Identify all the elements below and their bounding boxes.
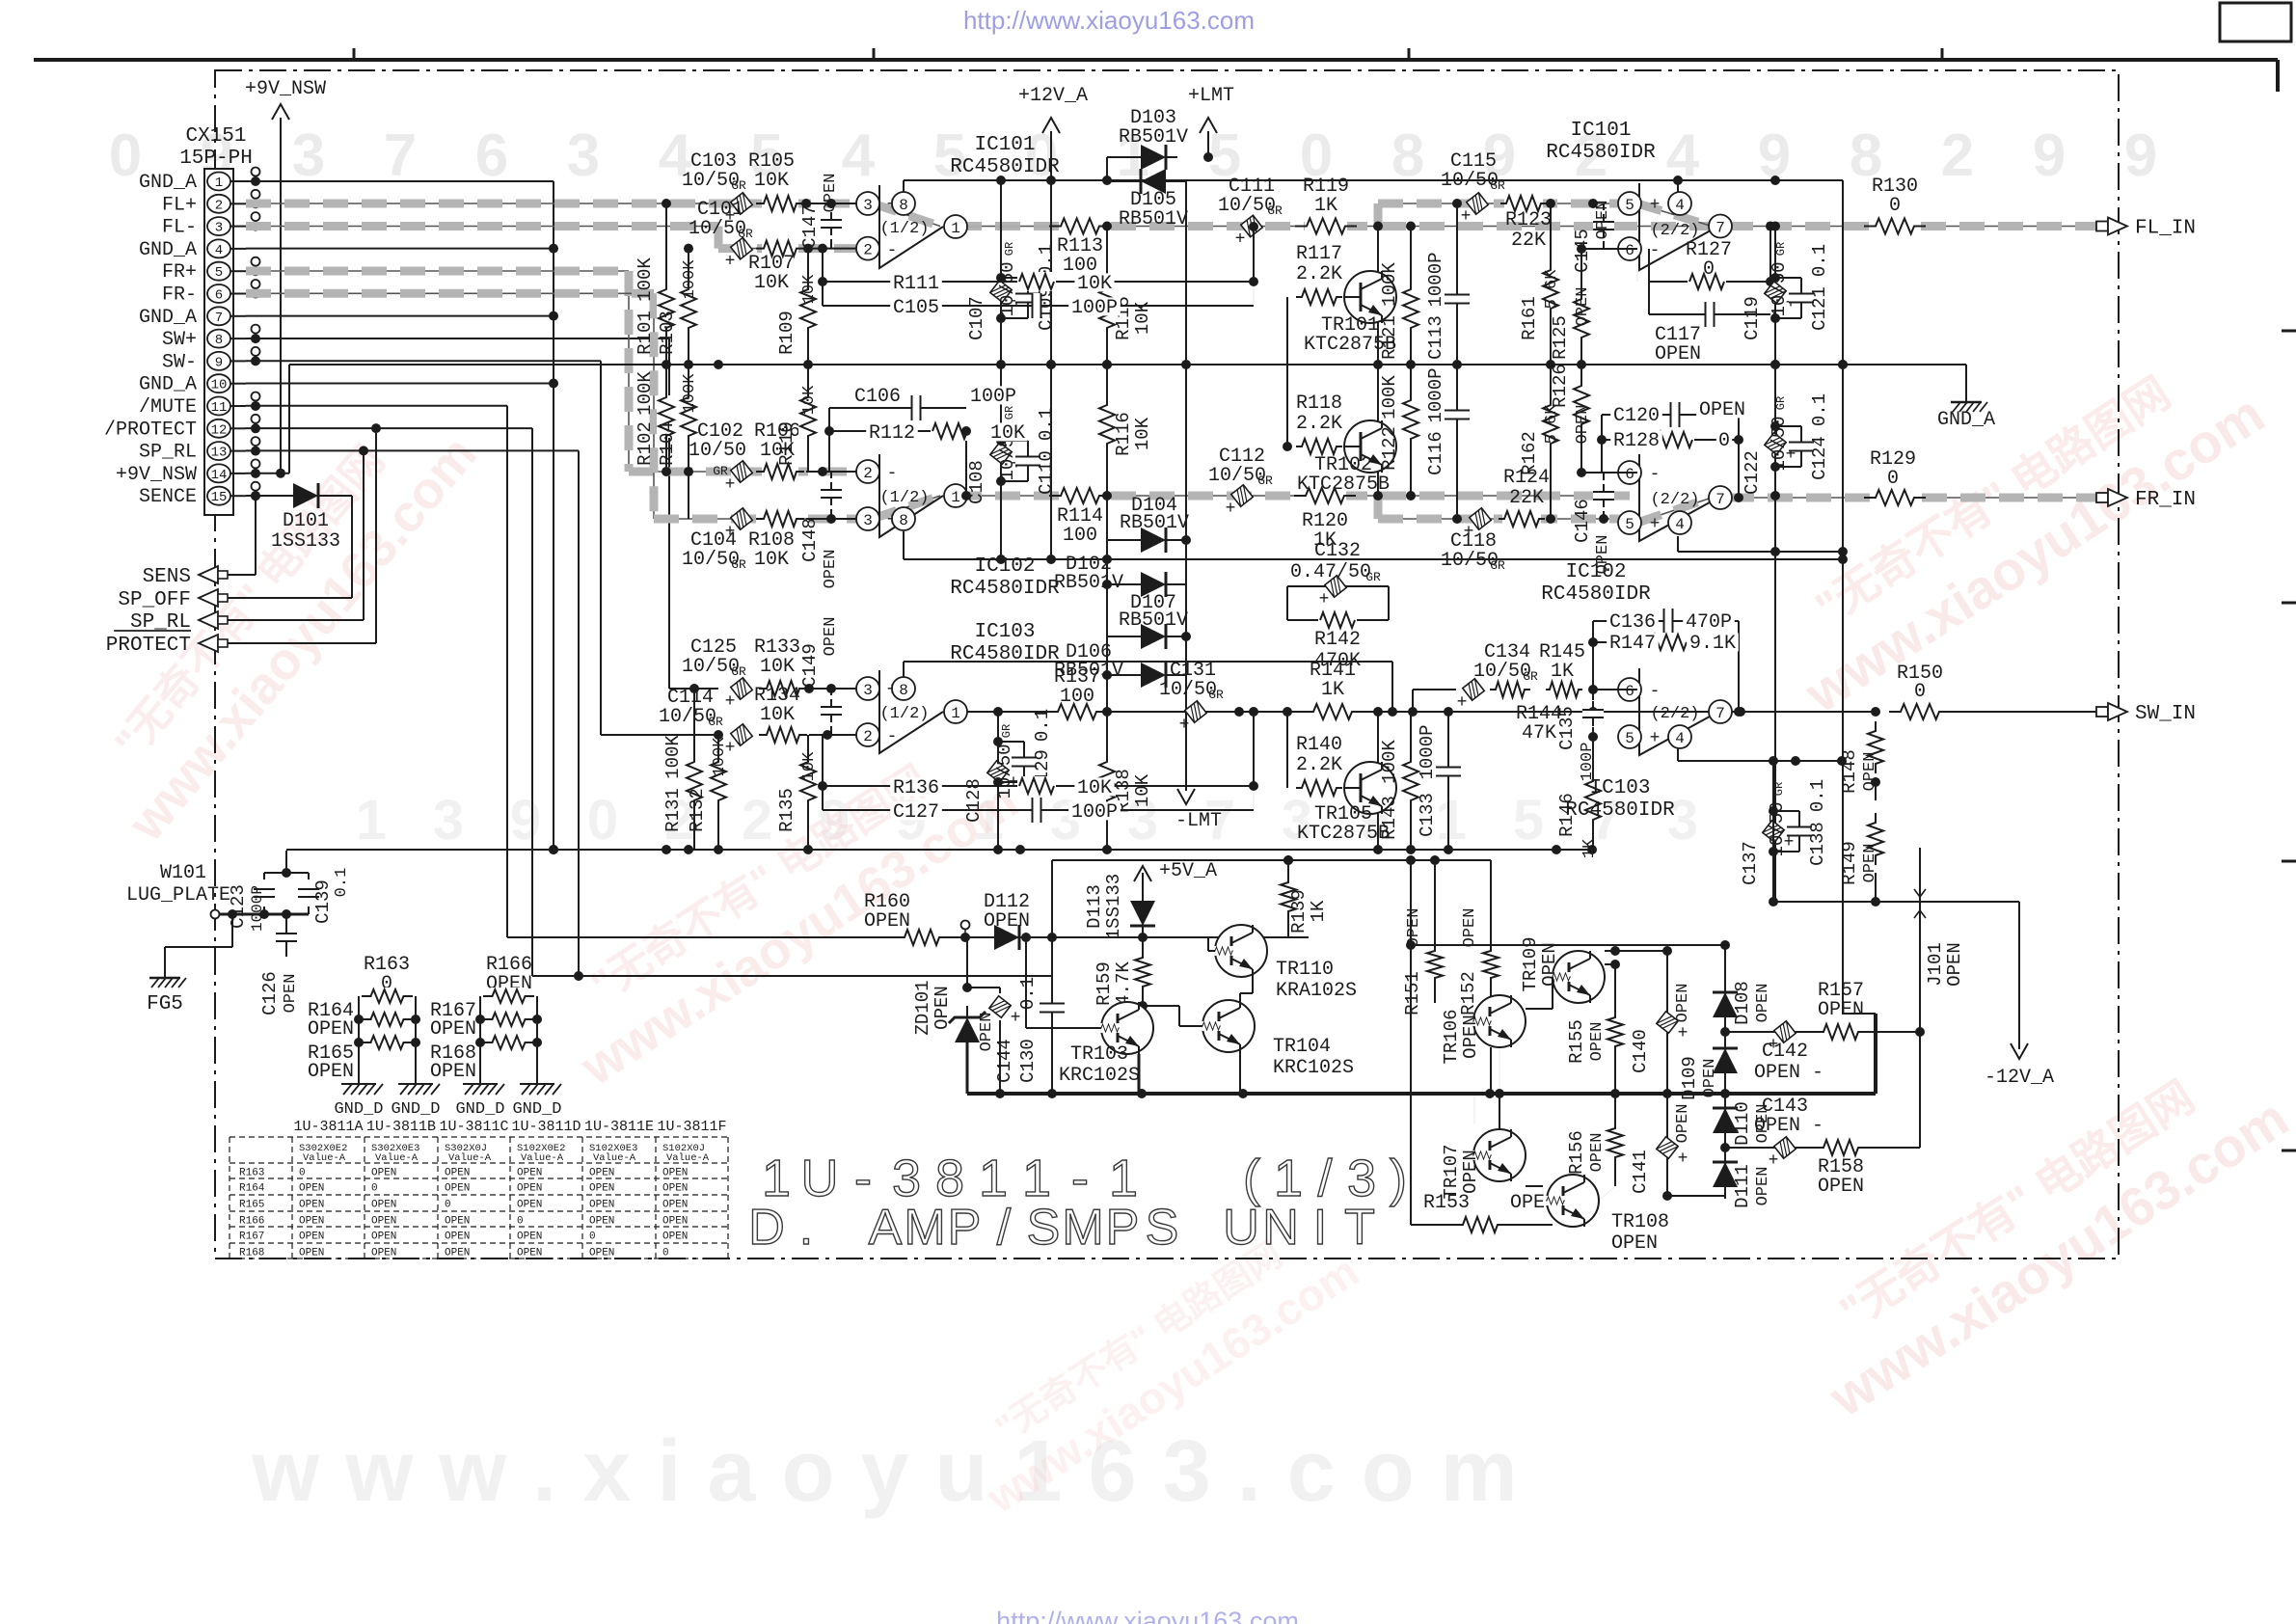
page top ruler line	[34, 48, 2278, 92]
svg-text:OPEN: OPEN	[430, 1061, 476, 1083]
capacitor C133	[1417, 707, 1461, 850]
svg-text:SENS: SENS	[143, 566, 191, 588]
svg-text:OPEN: OPEN	[662, 1200, 688, 1211]
svg-text:GND_D: GND_D	[455, 1100, 504, 1119]
node -LMT	[1175, 789, 1222, 832]
capacitor C145	[1572, 201, 1614, 273]
wire pin2b seg	[806, 467, 866, 476]
svg-text:C110: C110	[1036, 450, 1057, 495]
wire SW- route	[246, 361, 718, 735]
wire smps inner verticals	[1411, 1003, 1504, 1129]
resistor R153	[1423, 1192, 1556, 1234]
svg-text:OPEN: OPEN	[822, 174, 840, 213]
svg-text:GND_A: GND_A	[1937, 409, 1995, 431]
connector pin 2 FL+	[162, 194, 246, 216]
wire diode column	[1662, 964, 1730, 1201]
wire FR bus junction	[1373, 491, 1383, 501]
svg-text:100P: 100P	[1071, 297, 1118, 319]
svg-text:22K: 22K	[1511, 230, 1546, 252]
svg-text:R165: R165	[239, 1200, 264, 1211]
resistor R159	[1094, 937, 1152, 1011]
wire TR103 base	[1021, 933, 1101, 1028]
svg-text:3: 3	[215, 221, 223, 236]
resistor R126	[1550, 364, 1592, 473]
resistor R108	[748, 509, 804, 571]
svg-text:1000P: 1000P	[1417, 724, 1438, 779]
transistor TR106	[1441, 995, 1526, 1065]
resistor R134	[754, 685, 807, 744]
resistor R163	[364, 954, 410, 995]
svg-text:OPEN: OPEN	[445, 1183, 470, 1195]
svg-text:OPEN: OPEN	[1818, 999, 1864, 1021]
resistor R105	[748, 150, 804, 213]
capacitor C108	[966, 365, 1021, 559]
wire TR110 base	[1208, 937, 1253, 1000]
svg-text:10K: 10K	[760, 656, 795, 678]
svg-text:OPEN: OPEN	[589, 1200, 614, 1211]
svg-text:2: 2	[863, 465, 873, 482]
wire pin2 seg	[806, 244, 866, 254]
svg-text:2.2K: 2.2K	[1296, 263, 1342, 285]
diode D108	[1713, 981, 1772, 1029]
svg-text:4: 4	[842, 122, 876, 189]
svg-text:5: 5	[1625, 730, 1634, 747]
bottom url	[996, 1607, 1299, 1624]
capacitor C149	[799, 617, 842, 735]
connector pin 12 /PROTECT	[104, 419, 246, 441]
svg-text:1U-3811D: 1U-3811D	[511, 1119, 581, 1135]
svg-text:R162: R162	[1519, 431, 1540, 475]
svg-text:OPEN: OPEN	[371, 1168, 396, 1179]
svg-text:1SS133: 1SS133	[1103, 874, 1124, 939]
svg-text:100K: 100K	[662, 735, 684, 779]
svg-text:+: +	[1179, 716, 1190, 735]
resistor R125	[1550, 249, 1592, 365]
svg-text:D101: D101	[283, 510, 329, 532]
svg-text:1: 1	[762, 1150, 791, 1207]
svg-text:OPEN: OPEN	[864, 910, 910, 933]
resistor R113	[1049, 217, 1111, 278]
resistor R129	[1864, 448, 1926, 507]
svg-text:10K: 10K	[754, 549, 789, 571]
svg-text:OPEN: OPEN	[1574, 287, 1592, 327]
svg-text:OPEN: OPEN	[1701, 1059, 1719, 1098]
svg-text:1: 1	[951, 489, 960, 506]
capacitor C118	[1441, 508, 1505, 573]
capacitor C127 feedback	[818, 781, 1258, 824]
svg-text:GR: GR	[1208, 688, 1224, 702]
svg-text:C106: C106	[854, 386, 901, 408]
svg-text:OPEN -: OPEN -	[1754, 1062, 1823, 1084]
resistor R107	[748, 239, 804, 294]
svg-text:GR: GR	[1267, 203, 1283, 218]
svg-text:GR: GR	[731, 557, 746, 572]
wire W101 cluster	[165, 851, 309, 966]
svg-text:.: .	[799, 1200, 813, 1256]
resistor R155	[1566, 964, 1625, 1094]
svg-text:RC4580IDR: RC4580IDR	[1541, 583, 1651, 606]
svg-text:C113: C113	[1425, 315, 1446, 360]
svg-text:FR+: FR+	[162, 261, 197, 284]
svg-text:M: M	[904, 1200, 945, 1256]
svg-text:0: 0	[589, 1232, 596, 1243]
svg-text:10K: 10K	[754, 272, 789, 294]
svg-text:R136: R136	[893, 777, 939, 799]
svg-text:3: 3	[567, 122, 600, 189]
resistor R127	[1686, 239, 1732, 291]
red watermark left	[71, 388, 488, 853]
red watermark bottom center	[950, 1204, 1366, 1523]
wire x1148 sw	[1102, 675, 1112, 850]
svg-text:GR: GR	[731, 664, 746, 679]
svg-text:C123: C123	[228, 884, 249, 929]
svg-text:): )	[1390, 1150, 1407, 1207]
svg-text:RC4580IDR: RC4580IDR	[1546, 142, 1656, 164]
svg-text:R168: R168	[239, 1248, 264, 1259]
svg-text:8: 8	[899, 512, 908, 529]
svg-text:D113: D113	[1084, 884, 1105, 929]
watermark digits row	[109, 122, 2157, 189]
capacitor C113	[1425, 199, 1470, 365]
diode D113	[1084, 873, 1155, 939]
capacitor C132	[1287, 540, 1389, 620]
svg-text:C148: C148	[799, 518, 821, 562]
svg-text:5: 5	[215, 265, 223, 281]
svg-text:http://www.xiaoyu163.com: http://www.xiaoyu163.com	[996, 1607, 1299, 1624]
capacitor C143	[1754, 1096, 1823, 1171]
resistor R142	[1287, 610, 1389, 672]
svg-text:OPEN: OPEN	[308, 1018, 354, 1041]
resistor R149	[1839, 813, 1885, 907]
svg-text:100: 100	[1063, 525, 1097, 547]
bus jog FR	[1377, 496, 1379, 519]
ground GND_D 1	[334, 1072, 383, 1119]
wire sw to pin6 seg	[1413, 690, 1481, 712]
wire TR103 emitter	[1138, 1054, 1141, 1094]
svg-text:RB501V: RB501V	[1054, 572, 1123, 594]
resistor R109	[776, 244, 819, 365]
svg-text:R140: R140	[1296, 734, 1342, 756]
svg-text:GND_A: GND_A	[139, 239, 197, 261]
svg-text:OPEN: OPEN	[662, 1232, 688, 1243]
svg-text:R101: R101	[635, 311, 656, 355]
svg-text:Value-A: Value-A	[521, 1152, 564, 1164]
bus through IC102a	[873, 496, 940, 519]
svg-text:1: 1	[215, 176, 223, 191]
svg-text:14: 14	[211, 468, 228, 483]
svg-text:Value-A: Value-A	[593, 1152, 636, 1164]
svg-text:10K: 10K	[990, 422, 1025, 445]
wire GND_A drop	[1965, 365, 1967, 391]
node open terminal	[961, 921, 970, 938]
transistor TR107	[1441, 1129, 1526, 1200]
capacitor C146	[1572, 473, 1614, 574]
node SP_OFF	[118, 589, 228, 611]
svg-text:0: 0	[1889, 195, 1901, 217]
op-amp IC101 (2/2)	[1546, 120, 1732, 270]
svg-text:C124: C124	[1809, 436, 1830, 480]
svg-text:OPEN: OPEN	[1674, 1104, 1692, 1144]
wire ic102b fb net	[1577, 415, 1743, 502]
wire FL bus junction	[1373, 222, 1383, 231]
resistor R119	[1295, 176, 1357, 236]
ground GND_D 4	[512, 1072, 561, 1119]
svg-text:6: 6	[215, 288, 223, 304]
wire smps box right bold	[1842, 1014, 1876, 1094]
svg-text:-LMT: -LMT	[1175, 810, 1222, 832]
transistor TR103	[1059, 1002, 1153, 1087]
svg-text:(1/2): (1/2)	[879, 489, 929, 507]
connector pin 6 FR-	[162, 284, 246, 307]
resistor R103	[657, 244, 699, 365]
connector pin 10 GND_A	[139, 374, 246, 396]
resistor R152	[1458, 860, 1500, 1015]
capacitor C102	[689, 420, 752, 495]
resistor R112 feedback	[829, 421, 1028, 501]
op-amp IC102 (2/2)	[1541, 454, 1732, 606]
wire IC101a out	[967, 226, 1107, 228]
wire SP_OFF line	[199, 597, 352, 599]
resistor R117	[1287, 243, 1342, 447]
svg-text:4: 4	[1666, 122, 1700, 189]
ground GND_A right	[1937, 389, 1995, 431]
svg-text:R122: R122	[1379, 426, 1400, 471]
diode D112	[983, 891, 1031, 950]
svg-text:+9V_NSW: +9V_NSW	[245, 78, 326, 100]
svg-text:R164: R164	[239, 1183, 265, 1195]
diode D106	[1054, 641, 1186, 688]
svg-text:OPEN: OPEN	[445, 1168, 470, 1179]
connector pin 7 GND_A	[139, 307, 246, 329]
svg-text:GR: GR	[731, 178, 746, 193]
svg-text:R123: R123	[1505, 209, 1552, 231]
red watermark center	[538, 722, 1028, 1097]
resistor R120	[1294, 486, 1356, 552]
svg-text:4: 4	[215, 243, 223, 258]
svg-text:0.1: 0.1	[1809, 393, 1830, 426]
svg-text:RB501V: RB501V	[1119, 208, 1188, 230]
resistor R166	[486, 954, 532, 995]
svg-text:3: 3	[433, 789, 464, 852]
wire y935 link	[1769, 897, 2019, 907]
svg-text:R139: R139	[1288, 889, 1310, 934]
resistor R160	[864, 891, 949, 947]
capacitor C112	[1208, 446, 1273, 519]
svg-text:10K: 10K	[760, 704, 795, 726]
svg-text:D111: D111	[1732, 1164, 1753, 1208]
svg-text:C120: C120	[1613, 405, 1660, 427]
svg-text:1000P: 1000P	[249, 885, 266, 932]
svg-text:OPEN: OPEN	[1754, 984, 1772, 1023]
svg-text:5.6K: 5.6K	[1543, 269, 1561, 310]
svg-text:0.1: 0.1	[1036, 408, 1057, 441]
wire D103 anode	[1107, 157, 1141, 180]
svg-text:OPEN: OPEN	[984, 910, 1030, 933]
svg-text:4: 4	[1675, 730, 1685, 747]
svg-text:GND_A: GND_A	[139, 307, 197, 329]
resistor R144	[1490, 680, 1562, 744]
svg-text:1: 1	[1109, 1150, 1138, 1207]
svg-text:9: 9	[2033, 122, 2066, 189]
svg-text:RB501V: RB501V	[1119, 609, 1188, 632]
resistor R110	[776, 365, 819, 472]
svg-text:7: 7	[1715, 491, 1725, 508]
bus through IC101b	[1637, 203, 1712, 227]
node FL_IN	[2096, 218, 2196, 240]
resistor R140	[1283, 707, 1342, 798]
svg-text:KRA102S: KRA102S	[1276, 980, 1357, 1002]
capacitor C110	[996, 408, 1057, 495]
svg-text:100: 100	[1060, 686, 1094, 708]
svg-text:47K: 47K	[1522, 722, 1556, 744]
svg-text:3: 3	[892, 1150, 921, 1207]
wire x1148 lower	[1102, 365, 1112, 675]
svg-text:1U-3811C: 1U-3811C	[439, 1119, 508, 1135]
svg-text:R167: R167	[239, 1232, 264, 1243]
svg-text:2.2K: 2.2K	[1296, 413, 1342, 435]
svg-text:+: +	[1650, 196, 1661, 215]
svg-text:10/50: 10/50	[689, 440, 746, 462]
svg-text:10K: 10K	[754, 170, 789, 192]
wire right vert x1911	[1838, 180, 1848, 1014]
wire IC101 supply loop	[903, 180, 905, 192]
svg-text:10/50: 10/50	[994, 744, 1015, 798]
resistor R137	[1046, 666, 1108, 721]
svg-text:R111: R111	[893, 273, 939, 295]
wire pin4c drop	[1678, 748, 1847, 766]
svg-text:GR: GR	[1490, 178, 1505, 193]
svg-text:0: 0	[662, 1248, 669, 1259]
capacitor C109	[996, 244, 1057, 331]
svg-text:D108: D108	[1732, 981, 1753, 1025]
svg-text:GND_A: GND_A	[139, 374, 197, 396]
svg-text:R132: R132	[687, 788, 708, 832]
svg-text:OPEN: OPEN	[430, 1018, 476, 1041]
wire x1148 upper	[1102, 222, 1112, 370]
bus IC102b input seg	[1378, 518, 1630, 520]
diode D103	[1119, 107, 1188, 170]
svg-text:T: T	[1344, 1200, 1375, 1256]
svg-text:S: S	[1146, 1200, 1179, 1256]
svg-text:GR: GR	[1000, 724, 1013, 738]
svg-text:(2/2): (2/2)	[1650, 491, 1699, 509]
svg-text:+: +	[1226, 500, 1236, 519]
resistor R136 feedback	[823, 707, 1258, 799]
svg-text:OPEN: OPEN	[589, 1183, 614, 1195]
svg-text:100K: 100K	[1379, 740, 1400, 784]
wire analog gnd rail	[286, 845, 1597, 854]
wire PROTECT line	[199, 642, 376, 644]
svg-text:8: 8	[215, 333, 223, 348]
svg-text:+12V_A: +12V_A	[1018, 85, 1088, 107]
capacitor C148	[799, 472, 842, 588]
transistor TR104	[1202, 1000, 1354, 1079]
svg-text:C132: C132	[1314, 540, 1361, 562]
svg-text:SW_IN: SW_IN	[2135, 703, 2196, 725]
svg-text:R135: R135	[776, 788, 797, 832]
svg-text:+: +	[725, 475, 736, 495]
svg-text:TR103: TR103	[1070, 1043, 1128, 1066]
node SW_IN	[2096, 703, 2196, 725]
svg-text:IC101: IC101	[1570, 120, 1631, 142]
svg-text:P: P	[1106, 1200, 1140, 1256]
svg-text:1: 1	[1022, 1150, 1051, 1207]
svg-text:15: 15	[211, 490, 228, 505]
svg-text:FR-: FR-	[162, 284, 197, 307]
bus FR_IN out	[1729, 497, 2110, 499]
svg-text:Value-A: Value-A	[666, 1152, 710, 1164]
svg-text:12: 12	[211, 422, 228, 438]
svg-text:OPEN: OPEN	[445, 1216, 470, 1228]
svg-text:SW-: SW-	[162, 351, 197, 373]
svg-text:0: 0	[1703, 258, 1715, 281]
svg-text:OPEN: OPEN	[299, 1232, 324, 1243]
resistor R135	[776, 735, 819, 850]
svg-text:R116: R116	[1113, 412, 1134, 456]
diode D111	[1713, 1150, 1772, 1208]
svg-text:S: S	[1027, 1200, 1061, 1256]
connector pin 5 FR+	[162, 261, 246, 284]
svg-text:3: 3	[863, 682, 873, 699]
svg-text:1K: 1K	[1551, 661, 1574, 683]
wire +12V_A vertical	[1046, 131, 1056, 559]
svg-text:OPEN: OPEN	[299, 1183, 324, 1195]
svg-text:+: +	[1678, 1024, 1688, 1043]
svg-text:OPEN: OPEN	[371, 1232, 396, 1243]
svg-text:11: 11	[211, 400, 228, 416]
svg-text:GND_D: GND_D	[334, 1100, 383, 1119]
svg-text:0: 0	[517, 1216, 524, 1228]
table 1U-3811 variants	[230, 1119, 728, 1259]
diode D105	[1107, 157, 1188, 230]
svg-text:0.1: 0.1	[1017, 977, 1039, 1010]
wire pin4a up	[1673, 176, 1683, 192]
svg-text:2: 2	[863, 728, 873, 745]
ground FG5	[147, 964, 186, 1015]
svg-text:OPEN: OPEN	[662, 1168, 688, 1179]
svg-text:/: /	[997, 1200, 1012, 1256]
svg-text:10/50: 10/50	[997, 261, 1018, 316]
svg-text:OPEN: OPEN	[517, 1168, 542, 1179]
wire TR109 links	[1526, 946, 1672, 1009]
svg-text:IC103: IC103	[1589, 777, 1650, 799]
connector pin 15 SENCE	[139, 486, 246, 508]
svg-text:C138: C138	[1807, 822, 1828, 866]
svg-text:+: +	[1461, 207, 1472, 227]
svg-text:R156: R156	[1566, 1130, 1587, 1175]
svg-text:R104: R104	[657, 421, 678, 466]
capacitor C128	[963, 707, 1018, 850]
svg-text:/: /	[1317, 1150, 1332, 1207]
svg-text:0: 0	[1914, 681, 1926, 703]
svg-text:RC4580IDR: RC4580IDR	[950, 578, 1060, 600]
wire TR104 base	[1143, 1006, 1202, 1026]
svg-text:U: U	[1223, 1200, 1259, 1256]
svg-text:GR: GR	[708, 715, 723, 729]
bus FR+ from pin5	[246, 271, 866, 472]
svg-text:-: -	[887, 241, 898, 260]
capacitor C107	[966, 180, 1021, 365]
wire /MUTE route	[246, 406, 507, 937]
svg-text:4.7K: 4.7K	[1113, 961, 1134, 1006]
resistor R158	[1816, 1138, 1866, 1198]
wire rail2 left end	[285, 850, 287, 852]
resistor R141	[1302, 660, 1364, 721]
svg-text:OPEN: OPEN	[282, 974, 300, 1014]
page right edge ticks	[2282, 331, 2296, 1150]
svg-text:C119: C119	[1742, 296, 1763, 340]
capacitor C116	[1425, 365, 1470, 524]
